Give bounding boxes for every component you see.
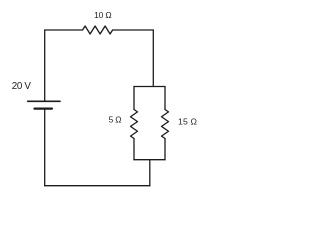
resistor R3 (15 ohm) vertical zigzag: [162, 110, 169, 139]
battery V1 negative (short) plate: [35, 107, 52, 109]
wire: top-right horizontal segment from R1 to right wire: [113, 29, 154, 31]
wire: stub from bottom wire up to parallel network bottom node: [149, 160, 151, 186]
svg-text:15 Ω: 15 Ω: [178, 116, 198, 126]
resistor R2 (5 ohm) vertical zigzag: [131, 110, 138, 139]
resistor R1 (10 ohm) zigzag: [83, 26, 113, 34]
battery V1 positive (long) plate: [28, 100, 60, 102]
wire: bottom horizontal wire: [45, 185, 150, 187]
wire: right branch bottom lead: [164, 139, 166, 160]
wire: top-left horizontal segment from left wire to R1: [45, 29, 83, 31]
wire: left vertical wire from top wire down to battery positive plate: [44, 30, 46, 101]
svg-text:5 Ω: 5 Ω: [109, 114, 122, 124]
wire: left vertical wire from battery negative plate down to bottom wire: [44, 109, 46, 186]
wire: left branch top lead: [133, 87, 135, 110]
wire: parallel network top node horizontal wire: [134, 86, 165, 88]
wire: right vertical wire down to parallel network node: [152, 30, 154, 87]
wire: parallel network bottom node horizontal wire: [134, 159, 165, 161]
svg-text:10 Ω: 10 Ω: [94, 10, 111, 20]
wire: right branch top lead: [164, 87, 166, 110]
wire: left branch bottom lead: [133, 139, 135, 160]
svg-text:20 V: 20 V: [12, 81, 32, 92]
